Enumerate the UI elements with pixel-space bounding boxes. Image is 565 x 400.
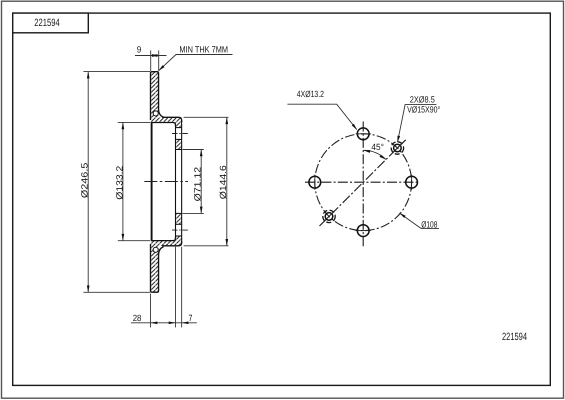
hat top wall inner edge [151,122,176,126]
dim D133.2: extension lines [118,121,150,123]
top bolt hole edges in section [175,127,182,129]
svg-text:Ø108: Ø108 [421,220,437,230]
hat bottom wall inner edge [151,237,176,241]
MIN THK leader [159,55,233,71]
hatch fill: hat face between top hole and bore [176,139,182,149]
svg-text:2XØ8.5: 2XØ8.5 [410,94,435,104]
hatch fill: ring top [151,72,159,118]
bottom bolt hole edges in section [175,223,182,225]
dim D144.6: dimension line [226,117,228,246]
label 2XD8.5 leader [398,105,437,143]
disc left face seen line (doubled/thick) [151,122,153,240]
dim D71.12: dimension line [200,150,202,214]
hat face left edge line [175,124,177,239]
svg-text:MIN THK 7MM: MIN THK 7MM [179,45,228,55]
svg-text:Ø246.5: Ø246.5 [80,163,90,199]
svg-text:VØ15X90°: VØ15X90° [407,105,441,115]
diagonal 45 centerline [320,140,406,226]
title box [13,13,89,33]
hatch fill: hat face bottom corner [176,236,182,241]
dim D246.5: dimension line [87,72,89,293]
svg-text:221594: 221594 [34,17,60,29]
countersunk hole NE [394,144,402,152]
dim 28/7: extension lines [150,294,152,328]
bolt circle D108 [315,134,412,231]
bolt hole top [357,128,369,140]
dim 9: extension lines [150,50,152,71]
countersunk hole SW [325,213,333,221]
horizontal centerline [305,181,419,183]
axis centerline left view [144,181,188,183]
svg-text:Ø71.12: Ø71.12 [193,167,203,202]
svg-text:Ø133.2: Ø133.2 [114,166,124,200]
hat face right edge line [181,121,183,243]
svg-text:9: 9 [137,45,142,55]
hatch fill: hat face between bore and bottom hole [176,213,182,224]
svg-text:45°: 45° [371,142,384,152]
vertical centerline [362,122,364,249]
dim D144.6: extension lines [184,116,229,118]
dim D133.2: dimension line [122,122,124,240]
bolt hole bottom [357,225,369,237]
dim 28/7: dimension line [131,322,197,324]
fillet groove top [153,111,158,116]
disc outline: ring bottom [151,244,164,292]
hatch fill: hat face top corner [176,122,182,127]
bolt hole left [309,176,321,188]
fillet groove bottom [153,247,158,252]
hat bottom wall outer edge [162,241,181,246]
label 4XD13.2 leader [287,104,356,129]
45 degree arc [363,150,386,159]
hatch fill: hat top wall [151,117,182,122]
dim 9: dimension line [135,55,167,57]
top bolt hole centerline (section) [172,133,189,135]
label D108 leader [400,213,440,228]
hat top wall outer edge [162,117,181,122]
svg-text:28: 28 [133,313,142,323]
svg-text:7: 7 [189,313,193,323]
bore edges in section [175,149,182,151]
svg-text:221594: 221594 [502,331,527,343]
svg-text:Ø144.6: Ø144.6 [218,165,228,199]
bolt hole right [406,176,418,188]
disc outline: ring top [151,72,164,120]
bottom bolt hole centerline (section) [172,229,189,231]
dim D246.5: extension lines [83,71,150,73]
dim D71.12: extension lines [183,149,204,151]
hatch fill: hat bottom wall [151,241,182,246]
svg-text:4XØ13.2: 4XØ13.2 [297,89,324,99]
hatch fill: ring bottom [151,246,159,292]
